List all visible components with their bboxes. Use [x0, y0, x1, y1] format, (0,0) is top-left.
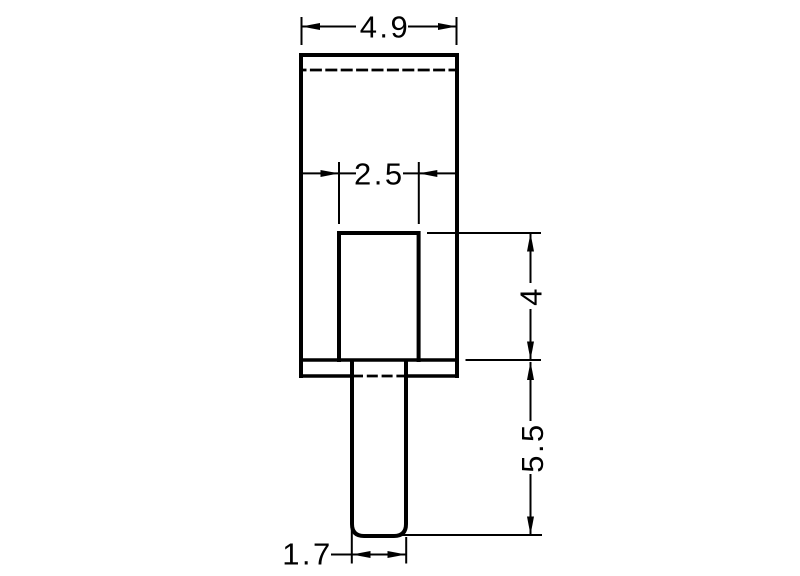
svg-text:1.7: 1.7	[282, 537, 333, 572]
dimension 4 extension line top	[427, 232, 541, 234]
dimension 4.9 arrowhead left	[302, 23, 321, 30]
dimension 5.5 line lower part	[530, 474, 532, 534]
dimension 2.5 leader line left	[300, 172, 356, 174]
dimension 2.5 extension line right	[418, 162, 420, 224]
svg-text:4: 4	[514, 286, 549, 306]
inner cavity rectangle	[339, 233, 419, 362]
body bottom edge right segment	[406, 374, 459, 378]
dimension 2.5 arrowhead left	[321, 170, 340, 177]
dimension 4.9 line left part	[302, 26, 357, 28]
dimension 4.9 arrowhead right	[438, 23, 457, 30]
dimension 2.5 leader line right	[403, 172, 457, 174]
dimension 4.9 extension line right	[456, 17, 458, 45]
dimension 5.5 arrowhead bottom	[527, 517, 534, 536]
hidden line body bottom behind pin	[352, 375, 406, 378]
svg-text:5.5: 5.5	[515, 422, 550, 473]
dimension 4 arrowhead bottom	[527, 342, 534, 361]
dimension 4 line lower part	[530, 309, 532, 359]
dimension 2.5 arrowhead right	[419, 170, 438, 177]
body outline top edge	[299, 53, 459, 57]
dimension 2.5 extension line left	[338, 162, 340, 224]
dimension 4.9 line right part	[408, 26, 457, 28]
svg-text:2.5: 2.5	[354, 156, 405, 191]
dimension 1.7 arrowhead left	[352, 551, 371, 558]
dimension 1.7 line	[331, 554, 406, 556]
dimension 1.7 extension line right	[405, 537, 407, 564]
dimension 5.5 line upper part	[530, 362, 532, 421]
body outline right edge	[455, 53, 459, 378]
dimension 4 line upper part	[530, 233, 532, 283]
dimension 4 extension line bottom	[466, 359, 542, 361]
dimension 1.7 arrowhead right	[388, 551, 407, 558]
svg-text:4.9: 4.9	[360, 10, 411, 45]
body shoulder line	[299, 358, 459, 362]
dimension 5.5 extension line bottom	[400, 534, 542, 536]
dimension 4 arrowhead top	[527, 233, 534, 252]
dimension 4.9 extension line left	[301, 17, 303, 45]
body bottom edge left segment	[299, 374, 352, 378]
dimension 5.5 arrowhead top	[527, 362, 534, 381]
hidden line near top	[303, 69, 455, 72]
pin outline	[352, 360, 406, 536]
body outline left edge	[299, 53, 303, 378]
dimension 1.7 extension line left	[351, 528, 353, 564]
